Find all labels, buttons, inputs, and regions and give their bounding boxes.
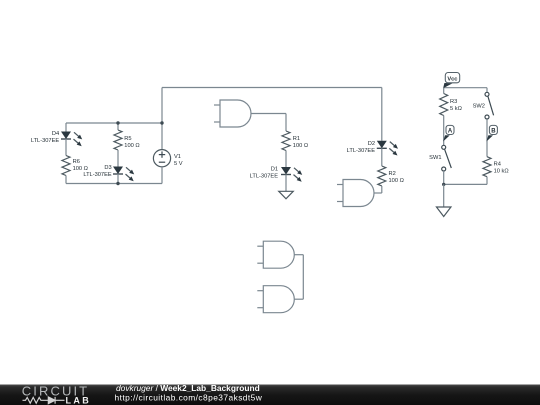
svg-text:D4: D4 (52, 131, 59, 137)
svg-text:SW1: SW1 (429, 155, 441, 161)
svg-text:D1: D1 (271, 167, 278, 173)
svg-text:A: A (448, 129, 453, 135)
svg-text:LTL-307EE: LTL-307EE (31, 138, 60, 144)
svg-text:5 kΩ: 5 kΩ (450, 106, 462, 112)
svg-text:Vcc: Vcc (447, 77, 457, 83)
svg-text:100 Ω: 100 Ω (124, 143, 139, 149)
svg-text:R1: R1 (293, 136, 300, 142)
svg-text:V1: V1 (174, 154, 181, 160)
svg-text:SW2: SW2 (473, 104, 485, 110)
svg-text:D3: D3 (104, 165, 111, 171)
svg-text:http://circuitlab.com/c8pe37ak: http://circuitlab.com/c8pe37aksdt5w (115, 392, 263, 402)
svg-text:5 V: 5 V (174, 161, 183, 167)
svg-text:100 Ω: 100 Ω (389, 178, 404, 184)
svg-text:B: B (491, 129, 496, 135)
svg-text:LTL-307EE: LTL-307EE (347, 148, 376, 154)
svg-text:dovkruger / Week2_Lab_Backgrou: dovkruger / Week2_Lab_Background (116, 383, 260, 393)
svg-text:LAB: LAB (66, 395, 92, 405)
svg-text:R5: R5 (124, 136, 131, 142)
svg-text:D2: D2 (368, 141, 375, 147)
svg-text:10 kΩ: 10 kΩ (494, 168, 509, 174)
svg-text:R2: R2 (389, 171, 396, 177)
svg-text:100 Ω: 100 Ω (293, 143, 308, 149)
svg-text:R3: R3 (450, 99, 457, 105)
svg-text:R4: R4 (494, 161, 501, 167)
svg-text:LTL-307EE: LTL-307EE (83, 172, 112, 178)
svg-text:LTL-307EE: LTL-307EE (250, 174, 279, 180)
svg-text:R6: R6 (73, 159, 80, 165)
